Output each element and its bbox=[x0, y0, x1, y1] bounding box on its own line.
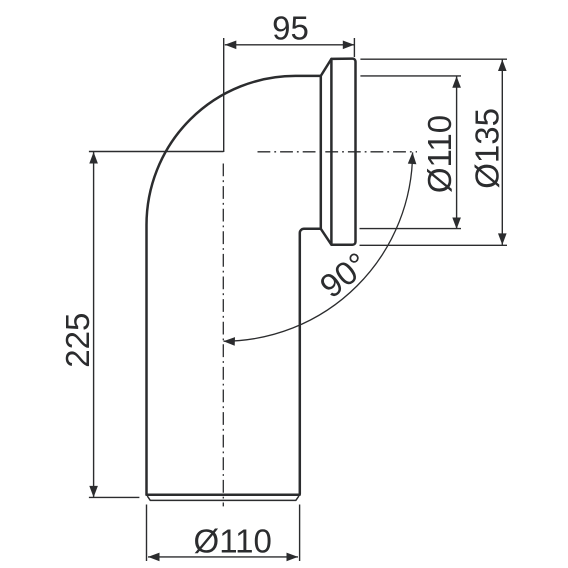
svg-text:Ø110: Ø110 bbox=[421, 115, 458, 193]
svg-text:Ø110: Ø110 bbox=[194, 522, 272, 559]
svg-text:225: 225 bbox=[59, 313, 96, 368]
svg-text:95: 95 bbox=[272, 10, 309, 47]
svg-text:Ø135: Ø135 bbox=[469, 108, 506, 189]
svg-text:90°: 90° bbox=[313, 245, 375, 305]
